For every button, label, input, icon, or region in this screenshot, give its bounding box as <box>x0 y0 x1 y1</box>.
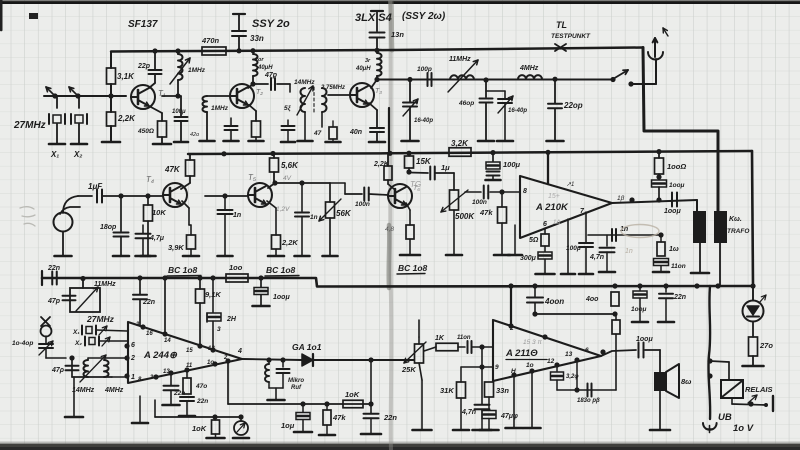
svg-text:56K: 56K <box>336 209 352 218</box>
svg-text:(SSY 2ω): (SSY 2ω) <box>402 11 446 22</box>
svg-text:1οομ: 1οομ <box>631 306 647 313</box>
svg-text:500K: 500K <box>455 212 475 221</box>
svg-text:1ομ: 1ομ <box>281 421 295 430</box>
svg-text:TL: TL <box>556 20 567 30</box>
svg-text:10K: 10K <box>152 208 166 217</box>
svg-text:12: 12 <box>547 358 555 365</box>
svg-text:3,9K: 3,9K <box>168 243 184 252</box>
svg-text:1n: 1n <box>233 212 241 219</box>
svg-text:183ο pβ: 183ο pβ <box>577 398 600 404</box>
svg-text:40μH: 40μH <box>257 65 273 71</box>
svg-text:22p: 22p <box>137 63 151 70</box>
svg-text:Ruf: Ruf <box>291 385 302 391</box>
svg-text:15: 15 <box>186 348 193 354</box>
svg-text:1οομ: 1οομ <box>273 294 290 301</box>
svg-text:1MHz: 1MHz <box>188 67 206 74</box>
svg-text:22n: 22n <box>196 398 208 405</box>
svg-text:1οο: 1οο <box>229 263 243 272</box>
svg-text:T₄: T₄ <box>146 175 154 184</box>
svg-text:TRAFO: TRAFO <box>727 228 749 235</box>
svg-text:100μ: 100μ <box>503 160 521 169</box>
svg-text:47p: 47p <box>264 72 278 79</box>
svg-text:6: 6 <box>131 342 135 349</box>
svg-text:1οομ: 1οομ <box>669 182 685 189</box>
svg-text:46οp: 46οp <box>458 100 474 107</box>
svg-text:1οK: 1οK <box>345 390 360 399</box>
svg-text:450Ω: 450Ω <box>137 128 154 135</box>
svg-text:4V: 4V <box>283 175 292 182</box>
svg-text:1n: 1n <box>310 214 318 221</box>
svg-text:T₃: T₃ <box>375 88 382 95</box>
svg-text:27MHz: 27MHz <box>13 120 46 131</box>
svg-text:3,2K: 3,2K <box>451 139 469 148</box>
svg-text:X₂: X₂ <box>74 340 82 347</box>
svg-text:11: 11 <box>186 363 193 369</box>
svg-text:TESTPUNKT: TESTPUNKT <box>551 33 591 40</box>
svg-text:4MHz: 4MHz <box>519 65 539 72</box>
svg-text:1ο: 1ο <box>526 362 534 369</box>
svg-text:2: 2 <box>223 355 228 361</box>
svg-text:47ο: 47ο <box>195 383 207 390</box>
svg-text:5ξ: 5ξ <box>284 105 292 112</box>
svg-text:8ω: 8ω <box>681 377 691 386</box>
svg-text:Mikrο: Mikrο <box>288 378 304 384</box>
svg-text:A 244⊕: A 244⊕ <box>143 350 178 361</box>
svg-text:1ο V: 1ο V <box>733 423 754 434</box>
svg-text:15 3 π: 15 3 π <box>523 339 542 346</box>
svg-text:47k: 47k <box>332 413 346 422</box>
svg-text:SSY 2o: SSY 2o <box>252 18 290 30</box>
svg-text:↗1: ↗1 <box>566 182 574 188</box>
svg-text:4MHz: 4MHz <box>104 387 124 394</box>
svg-text:2,2K: 2,2K <box>281 238 298 247</box>
svg-text:3,1K: 3,1K <box>117 72 135 81</box>
svg-text:3: 3 <box>217 326 221 333</box>
svg-text:2,75MHz: 2,75MHz <box>320 85 345 91</box>
svg-text:12: 12 <box>208 346 215 352</box>
svg-text:ΒC 1ο8: ΒC 1ο8 <box>168 265 198 275</box>
svg-text:1οοΩ: 1οοΩ <box>667 162 686 171</box>
svg-text:25K: 25K <box>401 365 416 374</box>
svg-text:18οp: 18οp <box>100 224 117 231</box>
svg-text:16-40p: 16-40p <box>508 108 527 114</box>
svg-text:47k: 47k <box>479 208 493 217</box>
svg-text:14MHz: 14MHz <box>72 387 95 394</box>
svg-text:1οομ: 1οομ <box>664 208 681 215</box>
svg-text:8: 8 <box>523 188 527 195</box>
svg-text:22οp: 22οp <box>563 101 583 110</box>
svg-text:ΒC 1ο8: ΒC 1ο8 <box>398 263 428 273</box>
svg-text:11MHz: 11MHz <box>94 281 116 288</box>
svg-text:13: 13 <box>565 351 573 358</box>
svg-text:X₂: X₂ <box>73 150 82 159</box>
svg-text:1MHz: 1MHz <box>211 105 229 112</box>
svg-text:33n: 33n <box>250 34 264 43</box>
svg-text:1: 1 <box>131 374 135 381</box>
svg-text:Kω.: Kω. <box>729 216 742 223</box>
svg-text:15K: 15K <box>416 157 432 166</box>
svg-text:1K: 1K <box>435 335 445 342</box>
svg-text:1ο: 1ο <box>207 360 214 366</box>
svg-text:3LX S4: 3LX S4 <box>355 12 392 24</box>
svg-text:300μ: 300μ <box>520 255 537 262</box>
svg-text:ΒC 1ο8: ΒC 1ο8 <box>266 265 296 275</box>
svg-text:15+: 15+ <box>548 193 560 200</box>
svg-text:4,8: 4,8 <box>385 226 394 233</box>
svg-text:4,7n: 4,7n <box>589 254 604 261</box>
svg-text:100n: 100n <box>472 199 487 206</box>
svg-text:14: 14 <box>164 338 171 344</box>
svg-text:3r: 3r <box>365 58 371 64</box>
svg-text:100n: 100n <box>355 201 370 208</box>
svg-text:TG: TG <box>410 180 421 189</box>
svg-text:1ω: 1ω <box>669 246 679 253</box>
svg-text:27MHz: 27MHz <box>86 314 115 324</box>
svg-text:4,7μ: 4,7μ <box>149 235 165 242</box>
svg-text:47p: 47p <box>47 298 61 305</box>
svg-text:33n: 33n <box>496 386 509 395</box>
svg-text:14MHz: 14MHz <box>294 79 315 86</box>
svg-text:GA 1ο1: GA 1ο1 <box>292 342 322 352</box>
svg-text:5,6K: 5,6K <box>281 161 299 170</box>
svg-text:47: 47 <box>313 130 322 137</box>
svg-text:1ο-4οp: 1ο-4οp <box>12 340 33 347</box>
svg-text:27ο: 27ο <box>759 341 773 350</box>
svg-text:11οn: 11οn <box>671 263 686 270</box>
svg-text:22n: 22n <box>142 299 155 306</box>
svg-text:42ο: 42ο <box>190 132 199 138</box>
svg-text:6: 6 <box>543 221 547 228</box>
svg-text:Η: Η <box>511 368 516 375</box>
svg-text:100p: 100p <box>417 66 432 73</box>
svg-text:2,2K: 2,2K <box>117 114 136 123</box>
svg-text:2Η: 2Η <box>226 316 237 323</box>
svg-text:4,7n: 4,7n <box>461 409 476 416</box>
svg-text:RELAIS: RELAIS <box>745 385 773 394</box>
svg-text:1β: 1β <box>617 195 625 202</box>
svg-text:22n: 22n <box>673 294 686 301</box>
svg-text:T₂: T₂ <box>256 89 263 96</box>
svg-text:4: 4 <box>237 348 242 355</box>
svg-text:1,2V: 1,2V <box>276 206 290 213</box>
svg-text:1οομ: 1οομ <box>636 336 653 343</box>
svg-text:1οK: 1οK <box>192 424 207 433</box>
svg-text:2,2K: 2,2K <box>373 161 390 168</box>
svg-text:A 211Θ: A 211Θ <box>505 348 538 359</box>
svg-text:X₁: X₁ <box>72 329 80 336</box>
svg-text:9: 9 <box>495 364 499 371</box>
svg-text:X₁: X₁ <box>50 150 59 159</box>
svg-text:40n: 40n <box>349 129 362 136</box>
svg-text:100μ: 100μ <box>566 245 581 252</box>
svg-text:22n: 22n <box>47 265 60 272</box>
svg-text:SF137: SF137 <box>128 19 158 30</box>
svg-text:1μ: 1μ <box>441 163 450 172</box>
svg-text:5Ω: 5Ω <box>529 237 539 244</box>
svg-text:1Δ: 1Δ <box>553 220 560 226</box>
svg-text:470n: 470n <box>201 36 220 45</box>
svg-text:11MHz: 11MHz <box>449 56 471 63</box>
svg-text:40μH: 40μH <box>355 66 371 72</box>
svg-text:6: 6 <box>585 347 589 354</box>
svg-text:100μ: 100μ <box>172 109 186 115</box>
svg-text:1n: 1n <box>625 248 633 255</box>
svg-text:A 210K: A 210K <box>535 202 569 213</box>
svg-text:2οr: 2οr <box>254 57 264 63</box>
svg-text:13: 13 <box>163 369 170 375</box>
svg-text:1μF: 1μF <box>88 182 103 191</box>
svg-text:UΒ: UΒ <box>718 412 732 423</box>
svg-text:4οο: 4οο <box>585 296 599 303</box>
svg-text:4οοn: 4οοn <box>544 297 564 306</box>
svg-text:11οn: 11οn <box>457 335 471 341</box>
svg-text:2: 2 <box>130 355 135 362</box>
svg-text:31K: 31K <box>440 386 454 395</box>
svg-text:16-40p: 16-40p <box>414 118 433 124</box>
svg-text:47K: 47K <box>164 165 181 174</box>
svg-text:13n: 13n <box>391 30 404 39</box>
svg-text:T₅: T₅ <box>248 173 257 182</box>
svg-text:22n: 22n <box>383 413 397 422</box>
svg-text:16: 16 <box>146 331 153 337</box>
svg-text:47μφ: 47μφ <box>500 413 518 420</box>
svg-text:47ρ: 47ρ <box>51 367 65 374</box>
